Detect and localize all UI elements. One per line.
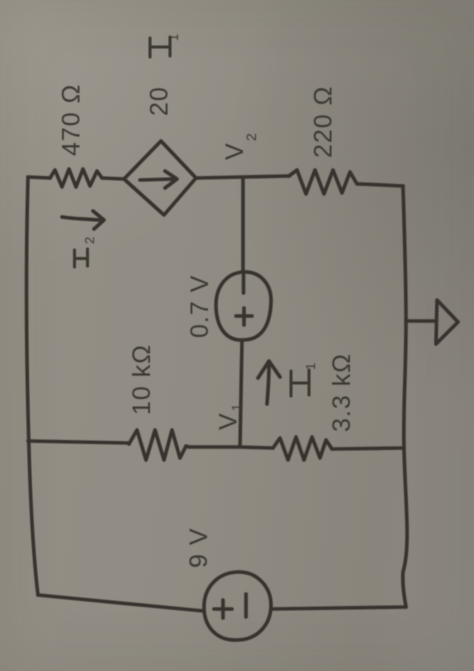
voltage source 0.7 V circle [216, 272, 271, 340]
svg-text:2: 2 [82, 236, 97, 244]
wire middle branch lower [240, 340, 242, 447]
node V2 wire to 220 resistor [243, 176, 289, 177]
current arrow I1 [258, 361, 280, 404]
label I1 custom I glyph near arrow [291, 370, 309, 396]
svg-text:V: V [221, 142, 249, 160]
label I1 custom I glyph of 20 I1 [150, 37, 170, 57]
voltage source 9 V circle [204, 572, 271, 640]
wire 3.3k to right rail [332, 448, 404, 449]
wire ground tap [406, 319, 436, 323]
wire 220 to top right corner [361, 184, 403, 186]
dependent source 20 I1 diamond [124, 141, 196, 215]
svg-text:1: 1 [229, 403, 244, 411]
plus sign of 0.7 V source [236, 308, 252, 325]
minus sign of 9 V source [244, 594, 248, 617]
svg-text:3.3 kΩ: 3.3 kΩ [328, 353, 356, 432]
wire resistor to diamond [102, 178, 124, 179]
minus sign of 0.7 V source [242, 275, 246, 293]
current arrow I2 [62, 211, 104, 229]
wire top left stub [28, 177, 50, 178]
svg-text:V: V [215, 412, 243, 430]
wire diamond to node V2 [196, 177, 243, 178]
resistor 470 ohm [50, 169, 102, 187]
label I2 custom I glyph [75, 249, 88, 267]
svg-text:470 Ω: 470 Ω [58, 84, 86, 156]
arrow inside dependent source [140, 171, 177, 188]
wire node V1 to 3.3k [240, 447, 273, 448]
wire bottom left [38, 595, 204, 611]
wire mid left [28, 441, 129, 443]
svg-text:10 kΩ: 10 kΩ [128, 344, 156, 415]
resistor 10 kohm [129, 430, 189, 460]
svg-text:220 Ω: 220 Ω [310, 86, 338, 158]
wire bottom right [271, 607, 406, 609]
wire 10k to node V1 [189, 445, 240, 449]
svg-text:9 V: 9 V [185, 527, 213, 568]
wire middle branch upper [241, 177, 245, 271]
wire left rail [27, 177, 38, 595]
ground symbol [436, 300, 458, 344]
wire right rail [403, 186, 407, 607]
plus sign of 9 V source [214, 600, 232, 618]
resistor 3.3 kohm [273, 437, 332, 460]
resistor 220 ohm [289, 170, 361, 194]
svg-text:20: 20 [146, 86, 174, 116]
svg-text:2: 2 [243, 132, 259, 141]
svg-text:1: 1 [166, 33, 181, 41]
svg-text:0.7 V: 0.7 V [186, 275, 214, 338]
svg-text:1: 1 [303, 362, 318, 370]
